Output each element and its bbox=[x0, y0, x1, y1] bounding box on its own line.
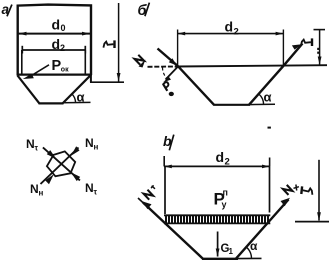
reference line bbox=[295, 221, 329, 223]
svg-text:N: N bbox=[30, 182, 39, 196]
dimension line d0 bbox=[19, 33, 91, 35]
svg-text:α: α bbox=[77, 90, 85, 105]
arrowhead NE pointing into element bbox=[71, 146, 80, 156]
svg-text:0: 0 bbox=[61, 23, 66, 33]
funnel left wall with upper extension bbox=[158, 49, 215, 105]
extension line right bbox=[282, 30, 284, 67]
svg-text:н: н bbox=[39, 189, 44, 198]
extension line left bbox=[177, 30, 179, 67]
dimension line d2 (top edge of load) bbox=[164, 165, 270, 167]
svg-text:N: N bbox=[85, 136, 94, 150]
alpha baseline extension bbox=[238, 257, 262, 259]
label N_t rotated bbox=[143, 190, 153, 200]
N arrow tick bbox=[139, 60, 146, 68]
vessel outer rectangle bbox=[18, 5, 91, 75]
arrowhead SW pointing into element bbox=[45, 174, 54, 184]
svg-text:N: N bbox=[85, 181, 94, 195]
svg-text:п: п bbox=[223, 188, 228, 198]
arrowhead NW pointing into element bbox=[47, 150, 56, 159]
load rectangle right edge bbox=[269, 166, 271, 212]
funnel bottom line bbox=[202, 258, 238, 260]
svg-text:1: 1 bbox=[229, 247, 234, 256]
funnel bottom bbox=[39, 102, 64, 104]
alpha baseline extension bbox=[250, 103, 276, 105]
svg-text:α: α bbox=[250, 239, 258, 253]
label l rotated bbox=[301, 38, 312, 46]
svg-text:у: у bbox=[222, 200, 227, 210]
l dimension line bbox=[118, 3, 120, 82]
l dimension reference line bbox=[90, 81, 124, 83]
svg-text:2: 2 bbox=[234, 27, 239, 38]
wall element pentagon bbox=[47, 151, 75, 176]
arrowhead SE pointing into element bbox=[71, 172, 80, 181]
alpha baseline extension bbox=[63, 101, 91, 103]
svg-text:d: d bbox=[225, 19, 234, 35]
l dimension right side bbox=[318, 160, 320, 221]
svg-text:d: d bbox=[52, 36, 61, 52]
dimension line d2 bbox=[22, 49, 85, 51]
inner wall right bbox=[84, 50, 86, 74]
force line NW-SE bbox=[43, 147, 80, 180]
funnel right slant bbox=[63, 75, 91, 104]
right wall stub down to reference line bbox=[90, 75, 92, 83]
funnel right wall / N_g2 arrow bbox=[236, 200, 289, 259]
l dimension right: top tick bbox=[314, 29, 326, 31]
extension tick right bbox=[269, 158, 271, 167]
load rectangle left edge bbox=[164, 166, 166, 214]
dimension line d2 bbox=[177, 33, 283, 35]
svg-text:d: d bbox=[52, 17, 61, 33]
svg-text:2: 2 bbox=[60, 43, 65, 53]
svg-text:τ: τ bbox=[94, 188, 98, 197]
G1 weight arrow bbox=[217, 232, 219, 257]
l dimension right line bbox=[319, 30, 321, 65]
funnel bottom bbox=[213, 104, 250, 106]
leader arrow P_ok bbox=[31, 65, 49, 76]
label P_o rotated bbox=[163, 81, 172, 91]
label l rotated bbox=[301, 186, 313, 195]
alpha arc bbox=[72, 94, 76, 103]
alpha arc bbox=[247, 247, 252, 258]
label N_g2 rotated bbox=[283, 185, 293, 195]
svg-text:ок: ок bbox=[61, 66, 69, 73]
dashed angle arc at P_o bbox=[163, 68, 168, 79]
stray mark bbox=[268, 127, 271, 129]
vessel bottom line bbox=[17, 73, 92, 75]
alpha arc bbox=[259, 94, 264, 105]
force line SW-NE bbox=[41, 148, 79, 185]
svg-text:d: d bbox=[216, 149, 225, 165]
svg-text:н: н bbox=[94, 143, 99, 152]
label l (rotated) bbox=[103, 40, 114, 48]
svg-text:α: α bbox=[264, 90, 272, 105]
funnel left slant bbox=[18, 76, 40, 104]
funnel right wall with upper extension bbox=[249, 44, 303, 105]
svg-text:τ: τ bbox=[35, 144, 39, 153]
arrowhead at top of right slope bbox=[292, 44, 302, 49]
hatched grate strip bbox=[164, 215, 270, 223]
ground line bbox=[148, 66, 178, 68]
extension tick left bbox=[163, 156, 165, 166]
svg-text:N: N bbox=[26, 137, 35, 151]
P_o force arrow bbox=[166, 67, 179, 80]
inner wall left bbox=[21, 50, 23, 74]
svg-text:2: 2 bbox=[225, 157, 230, 168]
funnel left wall with N_t arrow bbox=[143, 203, 203, 259]
label N rotated bbox=[134, 55, 144, 65]
arrowhead on left slope pointing to corner bbox=[169, 58, 177, 65]
